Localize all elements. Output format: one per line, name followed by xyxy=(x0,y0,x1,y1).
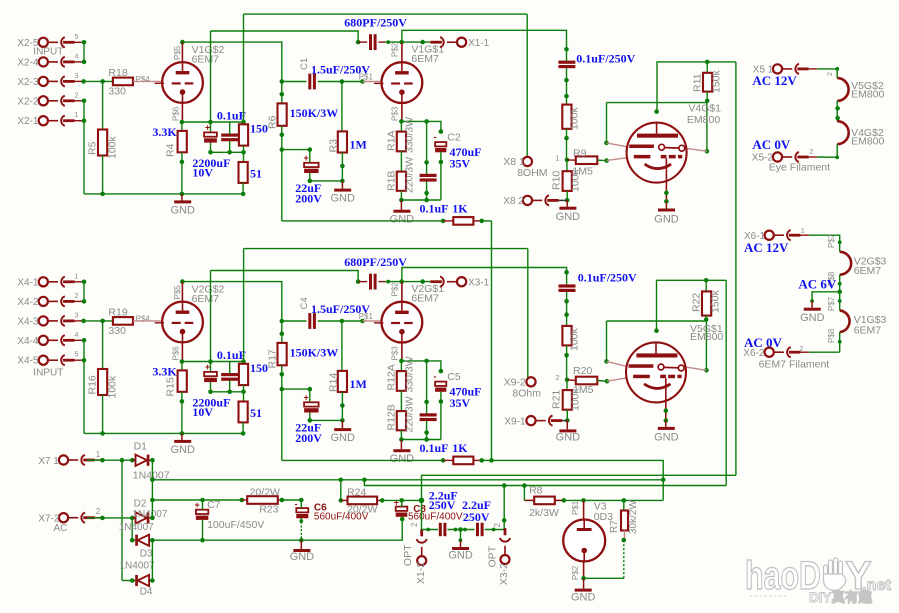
svg-text:+: + xyxy=(195,500,200,510)
svg-text:1N4007: 1N4007 xyxy=(132,509,167,520)
svg-text:EM800: EM800 xyxy=(851,89,884,101)
svg-text:P$6: P$6 xyxy=(172,106,181,121)
svg-text:R1B: R1B xyxy=(386,171,398,191)
svg-text:Eye Filament: Eye Filament xyxy=(769,161,830,173)
svg-text:GND: GND xyxy=(654,432,679,444)
svg-text:R12B: R12B xyxy=(386,404,398,430)
svg-text:0.1uF: 0.1uF xyxy=(420,441,449,455)
svg-text:3.3K: 3.3K xyxy=(152,125,177,139)
svg-text:100k: 100k xyxy=(107,375,119,399)
svg-text:220/3W: 220/3W xyxy=(404,157,416,193)
svg-text:AC: AC xyxy=(54,523,68,534)
svg-text:GND: GND xyxy=(330,193,355,205)
svg-text:OPT: OPT xyxy=(487,545,499,567)
svg-text:R9: R9 xyxy=(573,147,587,159)
svg-text:1N4007: 1N4007 xyxy=(120,561,155,572)
svg-text:INPUT: INPUT xyxy=(33,47,63,58)
svg-text:330/3W: 330/3W xyxy=(404,117,416,153)
svg-text:GND: GND xyxy=(330,432,355,444)
svg-text:X4-2: X4-2 xyxy=(17,297,39,308)
svg-text:P$2: P$2 xyxy=(391,42,400,57)
svg-text:10V: 10V xyxy=(192,166,213,180)
svg-text:P$7: P$7 xyxy=(827,296,836,311)
svg-text:330: 330 xyxy=(108,325,126,337)
svg-text:250V: 250V xyxy=(463,510,490,524)
svg-text:C5: C5 xyxy=(447,371,461,383)
svg-text:P$3: P$3 xyxy=(391,106,400,121)
svg-text:1M: 1M xyxy=(350,377,367,391)
svg-text:GND: GND xyxy=(556,211,581,223)
svg-text:X4-4: X4-4 xyxy=(17,336,39,347)
svg-text:P$4: P$4 xyxy=(136,315,151,324)
svg-text:X8 2: X8 2 xyxy=(503,196,524,207)
svg-text:R21: R21 xyxy=(551,390,563,409)
svg-text:AC 12V: AC 12V xyxy=(752,73,797,88)
svg-text:+: + xyxy=(205,122,210,132)
svg-text:1K: 1K xyxy=(452,441,468,455)
svg-text:GND: GND xyxy=(654,213,679,225)
svg-text:D1: D1 xyxy=(134,441,148,453)
svg-text:GND: GND xyxy=(290,551,315,563)
svg-text:8Ohm: 8Ohm xyxy=(512,387,541,399)
svg-text:220/3W: 220/3W xyxy=(404,396,416,432)
svg-text:330: 330 xyxy=(108,86,126,98)
svg-text:0.1uF: 0.1uF xyxy=(420,202,449,216)
svg-text:3: 3 xyxy=(75,312,79,319)
svg-text:150: 150 xyxy=(250,361,268,375)
svg-text:R12A: R12A xyxy=(386,364,398,390)
svg-text:X4-3: X4-3 xyxy=(17,316,39,327)
svg-text:C2: C2 xyxy=(447,132,461,144)
svg-text:2: 2 xyxy=(827,72,834,76)
svg-text:150k: 150k xyxy=(711,69,723,93)
svg-text:GND: GND xyxy=(170,205,195,217)
svg-text:330/3W: 330/3W xyxy=(404,356,416,392)
svg-text:AC 6V: AC 6V xyxy=(798,276,837,291)
svg-text:2: 2 xyxy=(96,507,101,516)
svg-text:680PF/250V: 680PF/250V xyxy=(344,15,407,29)
svg-text:2: 2 xyxy=(75,293,79,300)
svg-text:R20: R20 xyxy=(573,365,592,377)
svg-text:R6: R6 xyxy=(267,115,279,129)
svg-text:100uF/450V: 100uF/450V xyxy=(207,519,264,531)
svg-text:P$5: P$5 xyxy=(173,285,182,300)
svg-text:35V: 35V xyxy=(450,156,471,170)
svg-text:P$1: P$1 xyxy=(571,500,580,515)
svg-text:P$1: P$1 xyxy=(359,72,374,81)
svg-text:6EM7: 6EM7 xyxy=(192,54,220,66)
svg-text:C1: C1 xyxy=(299,58,310,70)
svg-text:GND: GND xyxy=(390,453,415,465)
svg-text:X2-3: X2-3 xyxy=(17,77,39,88)
svg-text:R7: R7 xyxy=(609,520,620,533)
svg-text:C7: C7 xyxy=(207,499,221,511)
svg-text:1N4007: 1N4007 xyxy=(119,522,154,533)
svg-text:X3-1: X3-1 xyxy=(468,278,490,289)
svg-text:250V: 250V xyxy=(429,498,456,512)
svg-text:P$5: P$5 xyxy=(173,45,182,60)
svg-text:-: - xyxy=(434,372,437,382)
svg-text:-: - xyxy=(295,499,298,509)
svg-text:6EM7: 6EM7 xyxy=(192,293,220,305)
svg-text:20/2W: 20/2W xyxy=(347,503,377,515)
svg-text:150: 150 xyxy=(250,122,268,136)
svg-text:1: 1 xyxy=(75,273,79,280)
svg-text:X2-4: X2-4 xyxy=(17,57,39,68)
svg-text:100k: 100k xyxy=(570,168,582,192)
svg-text:X1-1: X1-1 xyxy=(468,38,490,49)
svg-text:2: 2 xyxy=(809,149,813,156)
svg-text:D2: D2 xyxy=(134,498,147,509)
svg-text:R3: R3 xyxy=(328,139,340,153)
svg-text:0.1uF/250V: 0.1uF/250V xyxy=(576,52,635,66)
svg-text:+: + xyxy=(394,498,399,508)
svg-text:GND: GND xyxy=(571,592,596,604)
svg-text:3.3K: 3.3K xyxy=(152,365,177,379)
svg-text:R10: R10 xyxy=(551,171,563,190)
svg-text:EM800: EM800 xyxy=(687,114,720,126)
svg-text:D4: D4 xyxy=(140,586,153,597)
svg-text:10V: 10V xyxy=(192,405,213,419)
svg-text:AC 12V: AC 12V xyxy=(744,240,789,255)
svg-text:X4-5: X4-5 xyxy=(17,356,39,367)
svg-text:5: 5 xyxy=(75,352,79,359)
svg-text:150k: 150k xyxy=(710,289,722,313)
svg-text:100k: 100k xyxy=(569,327,581,351)
svg-text:100k: 100k xyxy=(569,106,581,130)
svg-text:P$4: P$4 xyxy=(136,75,151,84)
svg-text:X3-2: X3-2 xyxy=(498,563,510,585)
svg-text:P$7: P$7 xyxy=(827,233,836,248)
svg-text:2: 2 xyxy=(75,92,79,99)
svg-text:GND: GND xyxy=(170,444,195,456)
svg-text:+: + xyxy=(304,393,309,403)
svg-text:INPUT: INPUT xyxy=(33,368,63,379)
svg-text:1: 1 xyxy=(555,153,559,162)
svg-text:+: + xyxy=(205,362,210,372)
svg-text:8OHM: 8OHM xyxy=(517,167,547,179)
svg-text:P$8: P$8 xyxy=(827,328,836,343)
svg-text:OPT: OPT xyxy=(402,544,414,566)
svg-text:1: 1 xyxy=(75,112,79,119)
svg-text:3: 3 xyxy=(75,73,79,80)
svg-text:D3: D3 xyxy=(140,549,153,560)
svg-text:51: 51 xyxy=(250,406,262,420)
svg-text:4: 4 xyxy=(75,332,79,339)
svg-text:1: 1 xyxy=(801,228,805,235)
svg-text:P$6: P$6 xyxy=(172,346,181,361)
svg-text:X9-1: X9-1 xyxy=(504,417,526,428)
svg-text:P$2: P$2 xyxy=(391,282,400,297)
svg-text:150K/3W: 150K/3W xyxy=(290,106,339,120)
svg-text:6EM7: 6EM7 xyxy=(411,53,439,65)
svg-text:0.1uF: 0.1uF xyxy=(217,108,246,122)
svg-text:200V: 200V xyxy=(295,191,322,205)
svg-text:560uF/400V: 560uF/400V xyxy=(408,512,463,523)
svg-text:R14: R14 xyxy=(328,373,340,392)
svg-text:R19: R19 xyxy=(108,307,127,319)
svg-text:--------: -------- xyxy=(749,590,788,602)
svg-text:R23: R23 xyxy=(259,504,278,516)
svg-text:20/2W: 20/2W xyxy=(250,487,280,499)
svg-text:X6-2: X6-2 xyxy=(743,348,765,359)
svg-text:2: 2 xyxy=(493,523,502,528)
svg-text:200V: 200V xyxy=(295,431,322,445)
svg-text:X7 1: X7 1 xyxy=(38,456,59,467)
svg-text:R18: R18 xyxy=(108,67,127,79)
svg-text:1: 1 xyxy=(96,450,101,459)
svg-text:EM800: EM800 xyxy=(690,331,723,343)
svg-text:GND: GND xyxy=(800,312,825,324)
svg-text:51: 51 xyxy=(250,167,262,181)
svg-text:-: - xyxy=(434,132,437,142)
svg-text:X2-1: X2-1 xyxy=(17,116,39,127)
svg-text:100k: 100k xyxy=(107,135,119,159)
svg-text:1M: 1M xyxy=(350,137,367,151)
svg-text:DIY真有趣: DIY真有趣 xyxy=(809,589,873,605)
svg-text:AC 0V: AC 0V xyxy=(752,137,791,152)
svg-text:P$2: P$2 xyxy=(571,565,580,580)
svg-text:R15: R15 xyxy=(165,377,177,396)
svg-text:X2-2: X2-2 xyxy=(17,96,39,107)
svg-text:EM800: EM800 xyxy=(851,136,884,148)
svg-text:R5: R5 xyxy=(87,141,99,155)
svg-text:+: + xyxy=(304,153,309,163)
svg-text:R17: R17 xyxy=(267,349,279,368)
svg-text:GND: GND xyxy=(448,550,473,562)
svg-text:6EM7: 6EM7 xyxy=(854,265,882,277)
svg-text:R16: R16 xyxy=(87,375,99,394)
svg-text:0.1uF/250V: 0.1uF/250V xyxy=(578,271,637,285)
svg-text:6EM7 Filament: 6EM7 Filament xyxy=(759,358,830,370)
svg-text:2: 2 xyxy=(555,373,559,382)
svg-text:30k/2W: 30k/2W xyxy=(628,500,639,534)
svg-text:5: 5 xyxy=(75,34,79,41)
svg-text:P$3: P$3 xyxy=(391,346,400,361)
svg-text:R1A: R1A xyxy=(386,131,398,151)
svg-text:100k: 100k xyxy=(570,387,582,411)
svg-text:X4-1: X4-1 xyxy=(17,277,39,288)
svg-text:R11: R11 xyxy=(691,73,703,92)
svg-text:GND: GND xyxy=(556,431,581,443)
svg-text:R22: R22 xyxy=(690,293,702,312)
svg-text:150K/3W: 150K/3W xyxy=(290,346,339,360)
svg-text:R8: R8 xyxy=(529,485,543,497)
svg-text:2k/3W: 2k/3W xyxy=(529,507,559,519)
svg-text:P$1: P$1 xyxy=(359,312,374,321)
svg-text:GND: GND xyxy=(390,213,415,225)
svg-text:1K: 1K xyxy=(452,202,468,216)
svg-text:2: 2 xyxy=(799,346,803,353)
svg-text:6EM7: 6EM7 xyxy=(411,293,439,305)
svg-text:R24: R24 xyxy=(347,487,366,499)
svg-text:0.1uF: 0.1uF xyxy=(217,348,246,362)
svg-text:X1-2: X1-2 xyxy=(415,562,427,584)
svg-text:6EM7: 6EM7 xyxy=(854,324,882,336)
svg-text:V4G$1: V4G$1 xyxy=(688,102,721,114)
svg-text:C4: C4 xyxy=(299,297,310,309)
svg-text:R4: R4 xyxy=(165,143,177,157)
svg-text:35V: 35V xyxy=(450,396,471,410)
svg-text:4: 4 xyxy=(75,53,79,60)
svg-text:680PF/250V: 680PF/250V xyxy=(344,255,407,269)
svg-text:2: 2 xyxy=(410,522,419,527)
